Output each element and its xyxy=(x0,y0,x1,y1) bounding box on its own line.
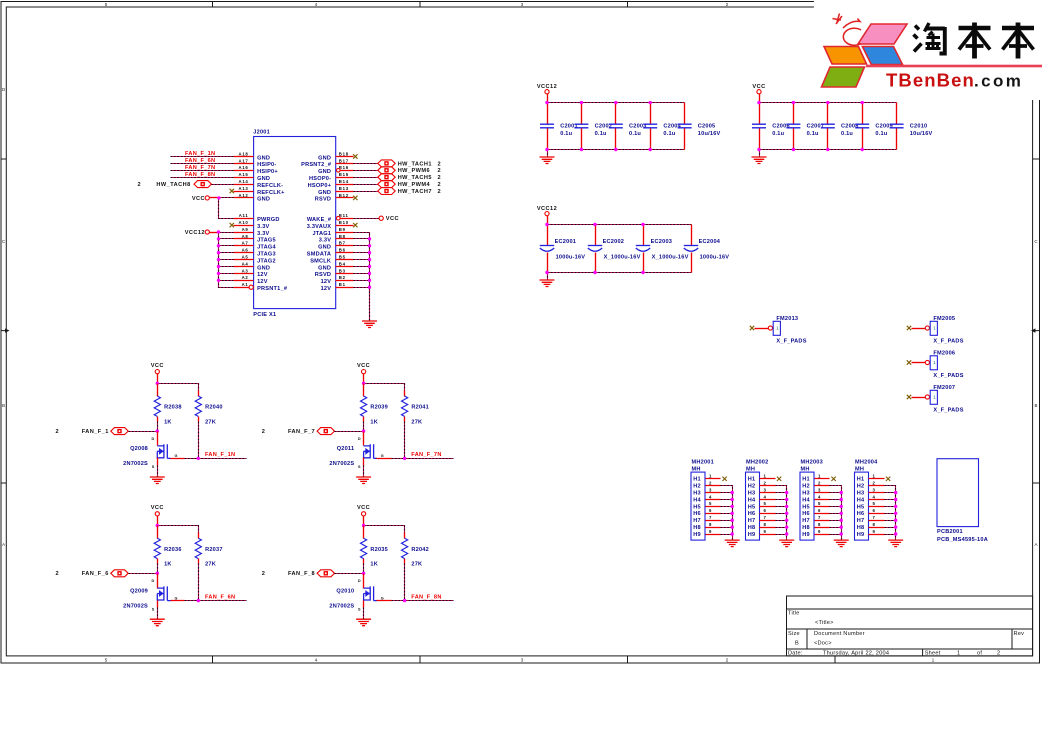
svg-text:1: 1 xyxy=(818,474,821,479)
svg-text:VCC12: VCC12 xyxy=(537,206,557,212)
svg-text:12V: 12V xyxy=(257,279,268,285)
capacitor EC2002 X_1000u-16V xyxy=(588,225,641,273)
wire ground bus MH2004 xyxy=(885,486,896,541)
svg-text:0.1u: 0.1u xyxy=(772,131,784,137)
svg-text:0.1u: 0.1u xyxy=(595,131,607,137)
svg-text:2: 2 xyxy=(763,481,766,486)
svg-text:1000u-16V: 1000u-16V xyxy=(556,255,586,261)
wire output net FAN_F_7N xyxy=(392,458,454,460)
svg-text:9: 9 xyxy=(763,529,766,534)
svg-text:7: 7 xyxy=(818,515,821,520)
svg-text:VCC: VCC xyxy=(151,505,164,511)
junction output Q2009 xyxy=(197,599,200,602)
svg-text:H6: H6 xyxy=(802,511,810,517)
svg-text:H6: H6 xyxy=(857,511,865,517)
svg-text:H2: H2 xyxy=(802,484,810,490)
svg-text:C: C xyxy=(2,239,5,244)
svg-text:of: of xyxy=(977,650,982,656)
svg-text:B5: B5 xyxy=(339,255,346,260)
svg-text:H5: H5 xyxy=(857,504,865,510)
svg-text:FAN_F_6N: FAN_F_6N xyxy=(185,158,215,164)
ground Q2011 xyxy=(356,477,371,484)
capacitor C2010 10u/16V xyxy=(890,103,933,150)
junctions on GND bus xyxy=(368,237,371,289)
resistor R2038 1K xyxy=(154,384,181,426)
svg-text:FM2007: FM2007 xyxy=(933,385,955,391)
svg-text:0.1u: 0.1u xyxy=(807,131,819,137)
svg-text:5: 5 xyxy=(709,501,712,506)
resistor R2041 27K xyxy=(402,391,429,426)
junction VCC circuit Q2008 xyxy=(156,382,159,385)
svg-text:FAN_F_7N: FAN_F_7N xyxy=(185,165,215,171)
junctions MH2003 xyxy=(840,491,843,536)
svg-text:27K: 27K xyxy=(205,419,216,425)
svg-text:8: 8 xyxy=(709,522,712,527)
svg-text:H2: H2 xyxy=(857,484,865,490)
svg-text:R2041: R2041 xyxy=(411,405,429,411)
svg-text:1000u-16V: 1000u-16V xyxy=(700,255,730,261)
logo green parallelogram xyxy=(822,67,865,87)
junctions bank 1 xyxy=(545,101,652,151)
svg-text:A18: A18 xyxy=(239,151,249,156)
wire pin B11 to VCC xyxy=(354,218,380,220)
svg-text:JTAG5: JTAG5 xyxy=(257,238,276,244)
svg-text:6: 6 xyxy=(872,508,875,513)
svg-text:27K: 27K xyxy=(411,419,422,425)
wire pin B15 to port HW_TACH5 xyxy=(354,177,378,179)
svg-text:0.1u: 0.1u xyxy=(663,131,675,137)
svg-text:G: G xyxy=(175,454,178,458)
svg-text:Q2008: Q2008 xyxy=(130,446,148,452)
svg-text:2: 2 xyxy=(56,429,60,435)
svg-text:X_F_PADS: X_F_PADS xyxy=(933,338,963,344)
svg-text:R2040: R2040 xyxy=(205,405,223,411)
svg-text:0.1u: 0.1u xyxy=(560,131,572,137)
wire pin B14 to port HW_PWM4 xyxy=(354,184,378,186)
svg-text:HW_PWM6: HW_PWM6 xyxy=(398,168,430,174)
svg-text:A17: A17 xyxy=(239,158,249,163)
svg-text:R2038: R2038 xyxy=(164,405,182,411)
fan pad FM2007 xyxy=(907,385,964,413)
power symbol VCC12 at pin A9 xyxy=(185,230,210,236)
svg-text:H1: H1 xyxy=(857,477,865,483)
off-page port HW_TACH8 xyxy=(138,181,212,188)
svg-text:2N7002S: 2N7002S xyxy=(329,461,354,467)
svg-text:S: S xyxy=(152,465,155,469)
svg-text:12V: 12V xyxy=(321,286,332,292)
title block text xyxy=(788,611,1024,657)
svg-text:R2036: R2036 xyxy=(164,547,182,553)
svg-text:Document Number: Document Number xyxy=(814,631,865,637)
junction output Q2010 xyxy=(403,599,406,602)
svg-text:MH2004: MH2004 xyxy=(855,460,878,466)
svg-text:5: 5 xyxy=(872,501,875,506)
capacitor C2007 0.1u xyxy=(786,103,824,150)
svg-text:Rev: Rev xyxy=(1014,631,1025,637)
svg-text:1: 1 xyxy=(763,474,766,479)
svg-text:2: 2 xyxy=(997,650,1000,656)
svg-text:VCC12: VCC12 xyxy=(537,84,557,90)
junctions MH2002 xyxy=(785,491,788,536)
svg-text:H5: H5 xyxy=(748,504,756,510)
svg-text:EC2002: EC2002 xyxy=(603,239,625,245)
wire ground stem bank 2 xyxy=(759,150,761,158)
svg-text:H3: H3 xyxy=(802,491,810,497)
svg-text:FAN_F_7: FAN_F_7 xyxy=(288,429,315,435)
svg-text:D: D xyxy=(152,579,155,583)
svg-text:A10: A10 xyxy=(239,220,249,225)
svg-text:3.3V: 3.3V xyxy=(319,238,331,244)
svg-text:H6: H6 xyxy=(693,511,701,517)
svg-text:HW_TACH5: HW_TACH5 xyxy=(398,175,432,181)
svg-text:2: 2 xyxy=(438,175,442,181)
svg-text:FAN_F_8: FAN_F_8 xyxy=(288,571,315,577)
logo swoosh underline xyxy=(866,65,1042,68)
junction VCC circuit Q2010 xyxy=(362,524,365,527)
svg-text:H9: H9 xyxy=(748,532,756,538)
power symbol VCC12 bank 1 xyxy=(537,84,557,94)
svg-text:2: 2 xyxy=(262,429,266,435)
svg-text:A16: A16 xyxy=(239,165,249,170)
svg-text:0.1u: 0.1u xyxy=(841,131,853,137)
svg-text:FAN_F_6N: FAN_F_6N xyxy=(205,594,235,600)
svg-text:6: 6 xyxy=(818,508,821,513)
svg-text:H8: H8 xyxy=(693,525,701,531)
svg-text:B4: B4 xyxy=(339,261,346,266)
svg-text:HW_TACH8: HW_TACH8 xyxy=(156,182,190,188)
pin A1 PRSNT1 circle xyxy=(249,285,253,289)
svg-text:4: 4 xyxy=(709,494,712,499)
svg-text:6: 6 xyxy=(763,508,766,513)
svg-text:B13: B13 xyxy=(339,186,349,191)
no-connect X pin1 MH2003 xyxy=(831,477,835,481)
svg-text:JTAG4: JTAG4 xyxy=(257,245,276,251)
svg-text:D: D xyxy=(358,579,361,583)
ground bank 3 xyxy=(540,280,555,287)
svg-text:B15: B15 xyxy=(339,172,349,177)
svg-text:D: D xyxy=(2,87,5,92)
logo background xyxy=(814,0,1053,100)
svg-text:A3: A3 xyxy=(242,268,249,273)
svg-text:VCC: VCC xyxy=(752,84,765,90)
mounting hole array MH2002 xyxy=(746,460,769,540)
wire ground bus MH2002 xyxy=(776,486,787,541)
svg-text:JTAG1: JTAG1 xyxy=(312,231,331,237)
svg-text:MH2002: MH2002 xyxy=(746,460,768,466)
off-page port HW_TACH7 xyxy=(378,188,441,195)
zone mid arrows xyxy=(1,330,1040,332)
svg-text:R2042: R2042 xyxy=(411,547,429,553)
ground Q2009 xyxy=(150,619,165,626)
off-page port HW_TACH5 xyxy=(378,174,441,181)
svg-text:Thursday, April 22, 2004: Thursday, April 22, 2004 xyxy=(823,650,889,656)
junction at VCC/A12 xyxy=(217,196,220,199)
svg-text:A14: A14 xyxy=(239,179,249,184)
svg-text:A1: A1 xyxy=(242,282,249,287)
svg-text:G: G xyxy=(381,454,384,458)
svg-text:3.3VAUX: 3.3VAUX xyxy=(307,224,331,230)
wire net FAN_F_8N to pin A15 xyxy=(171,177,234,179)
pins MH2001 xyxy=(706,474,721,535)
svg-text:EC2001: EC2001 xyxy=(555,239,577,245)
transistor Q2010 2N7002S xyxy=(329,574,391,612)
wire R2036 to gate node xyxy=(157,564,159,574)
power symbol VCC circuit Q2010 xyxy=(357,505,370,516)
svg-text:MH2003: MH2003 xyxy=(801,460,823,466)
svg-text:R2035: R2035 xyxy=(370,547,388,553)
no-connect X at pin A13 xyxy=(230,189,234,193)
svg-text:.com: .com xyxy=(974,72,1023,91)
svg-text:4: 4 xyxy=(818,494,821,499)
svg-text:VCC: VCC xyxy=(386,216,399,222)
svg-text:1K: 1K xyxy=(370,419,378,425)
off-page port FAN_F_1 xyxy=(56,428,129,435)
junction output Q2011 xyxy=(403,457,406,460)
svg-text:A2: A2 xyxy=(242,275,249,280)
svg-text:A6: A6 xyxy=(242,248,249,253)
svg-text:FAN_F_8N: FAN_F_8N xyxy=(411,594,441,600)
no-connect X pin1 MH2002 xyxy=(777,477,781,481)
fan pad FM2013 xyxy=(750,316,807,344)
svg-text:2: 2 xyxy=(56,571,60,577)
svg-text:B17: B17 xyxy=(339,158,349,163)
svg-text:7: 7 xyxy=(872,515,875,520)
wire net FAN_F_6N to pin A17 xyxy=(171,163,234,165)
svg-text:FM2005: FM2005 xyxy=(933,316,955,322)
svg-text:8: 8 xyxy=(872,522,875,527)
svg-text:HSIP0+: HSIP0+ xyxy=(257,169,278,175)
svg-text:H4: H4 xyxy=(857,497,865,503)
svg-text:H1: H1 xyxy=(802,477,810,483)
svg-text:H2: H2 xyxy=(693,484,701,490)
svg-text:H8: H8 xyxy=(802,525,810,531)
svg-text:27K: 27K xyxy=(205,562,216,568)
svg-text:GND: GND xyxy=(257,155,270,161)
logo figure xyxy=(833,14,862,46)
wire HW_TACH8 to pin A14 xyxy=(212,184,234,186)
svg-text:JTAG3: JTAG3 xyxy=(257,252,276,258)
svg-text:2: 2 xyxy=(138,182,142,188)
svg-text:HW_TACH7: HW_TACH7 xyxy=(398,189,432,195)
svg-text:3: 3 xyxy=(872,487,875,492)
svg-text:S: S xyxy=(358,607,361,611)
svg-text:TBenBen: TBenBen xyxy=(886,70,975,91)
pin B11 circle xyxy=(337,216,341,220)
no-connect X at pin B18 xyxy=(353,154,357,158)
svg-text:B14: B14 xyxy=(339,179,349,184)
capacitor C2003 0.1u xyxy=(609,103,647,150)
ground MH2003 xyxy=(834,540,849,547)
svg-text:B9: B9 xyxy=(339,227,346,232)
svg-text:HSOP0+: HSOP0+ xyxy=(308,183,332,189)
svg-text:D: D xyxy=(152,437,155,441)
wire R2040 to drain node xyxy=(198,422,200,459)
wire GND bus B9..B1 xyxy=(354,233,370,322)
capacitor C2005 10u/16V xyxy=(678,103,721,150)
svg-text:2N7002S: 2N7002S xyxy=(329,603,354,609)
svg-text:G: G xyxy=(381,596,384,600)
wire rails bank 3 xyxy=(547,216,549,225)
svg-text:X_F_PADS: X_F_PADS xyxy=(776,338,806,344)
wire VCC rail circuit Q2011 xyxy=(363,374,365,384)
svg-text:Q2011: Q2011 xyxy=(337,446,355,452)
resistor R2042 27K xyxy=(402,533,429,568)
no-connect X pin1 MH2001 xyxy=(722,477,726,481)
junction input node Q2011 xyxy=(362,429,365,432)
wire R2035 to gate node xyxy=(363,564,365,574)
svg-text:PCB2001: PCB2001 xyxy=(937,529,963,535)
wire output net FAN_F_1N xyxy=(185,458,247,460)
junctions on VCC12 bus xyxy=(217,230,220,282)
off-page port FAN_F_8 xyxy=(262,570,335,577)
svg-text:10u/16V: 10u/16V xyxy=(910,131,933,137)
svg-text:1: 1 xyxy=(709,474,712,479)
svg-text:S: S xyxy=(358,465,361,469)
svg-text:X_1000u-16V: X_1000u-16V xyxy=(604,255,641,261)
logo blue parallelogram xyxy=(862,47,902,65)
resistor R2037 27K xyxy=(195,533,222,568)
svg-text:HW_PWM4: HW_PWM4 xyxy=(398,182,431,188)
svg-text:4: 4 xyxy=(872,494,875,499)
svg-text:12V: 12V xyxy=(321,279,332,285)
svg-text:GND: GND xyxy=(257,176,270,182)
transistor Q2009 2N7002S xyxy=(123,574,184,612)
ground MH2004 xyxy=(888,540,903,547)
svg-text:B18: B18 xyxy=(339,151,349,156)
svg-text:H1: H1 xyxy=(748,477,756,483)
svg-text:B7: B7 xyxy=(339,241,346,246)
svg-text:2N7002S: 2N7002S xyxy=(123,603,148,609)
svg-text:3: 3 xyxy=(763,487,766,492)
off-page port HW_PWM6 xyxy=(378,167,441,174)
svg-text:2: 2 xyxy=(872,481,875,486)
svg-text:B2: B2 xyxy=(339,275,346,280)
junction input node Q2010 xyxy=(362,572,365,575)
svg-text:EC2004: EC2004 xyxy=(699,239,721,245)
svg-text:PWRGD: PWRGD xyxy=(257,217,280,223)
pins MH2004 xyxy=(869,474,885,535)
svg-text:H6: H6 xyxy=(748,511,756,517)
off-page port FAN_F_7 xyxy=(262,428,335,435)
svg-text:7: 7 xyxy=(763,515,766,520)
svg-text:1: 1 xyxy=(872,474,875,479)
svg-text:H7: H7 xyxy=(802,518,810,524)
ground bank 1 xyxy=(540,157,555,164)
svg-text:PRSNT2_#: PRSNT2_# xyxy=(301,162,332,168)
svg-text:2: 2 xyxy=(438,182,442,188)
ground Q2010 xyxy=(356,619,371,626)
svg-text:GND: GND xyxy=(318,245,331,251)
svg-text:5: 5 xyxy=(763,501,766,506)
svg-text:7: 7 xyxy=(709,515,712,520)
svg-text:<Doc>: <Doc> xyxy=(814,641,832,647)
svg-text:H5: H5 xyxy=(802,504,810,510)
mounting hole array MH2003 xyxy=(800,460,823,540)
svg-text:RSVD: RSVD xyxy=(315,197,331,203)
wire VCC rail circuit Q2010 xyxy=(363,516,365,526)
svg-text:12V: 12V xyxy=(257,272,268,278)
logo chinese characters 淘本本 xyxy=(914,23,1035,59)
svg-text:A11: A11 xyxy=(239,213,249,218)
junction input node Q2009 xyxy=(156,572,159,575)
svg-text:9: 9 xyxy=(709,529,712,534)
ground MH2001 xyxy=(725,540,740,547)
junctions bank 3 xyxy=(545,223,644,274)
svg-text:9: 9 xyxy=(872,529,875,534)
power symbol VCC12 bank 3 xyxy=(537,206,557,216)
svg-text:S: S xyxy=(152,607,155,611)
svg-text:VCC12: VCC12 xyxy=(185,230,205,236)
svg-text:GND: GND xyxy=(257,265,270,271)
svg-text:2: 2 xyxy=(709,481,712,486)
wire rails bank 1 xyxy=(547,94,549,103)
capacitor EC2003 X_1000u-16V xyxy=(636,225,689,273)
svg-text:MH2001: MH2001 xyxy=(692,460,714,466)
wire pin B16 to port HW_PWM6 xyxy=(354,170,378,172)
wire ground bus MH2001 xyxy=(721,486,733,541)
wire output net FAN_F_8N xyxy=(392,600,454,602)
svg-text:H9: H9 xyxy=(693,532,701,538)
svg-text:H3: H3 xyxy=(693,491,701,497)
pins MH2002 xyxy=(760,474,776,535)
svg-text:HSIP0-: HSIP0- xyxy=(257,162,276,168)
capacitor C2006 0.1u xyxy=(752,103,790,150)
power symbol VCC at B11 xyxy=(379,216,399,222)
svg-text:HSOP0-: HSOP0- xyxy=(309,176,331,182)
power symbol VCC circuit Q2008 xyxy=(151,363,164,374)
svg-text:SMDATA: SMDATA xyxy=(307,252,331,258)
svg-text:3: 3 xyxy=(818,487,821,492)
svg-text:9: 9 xyxy=(818,529,821,534)
svg-text:J2001: J2001 xyxy=(253,130,270,136)
transistor Q2008 2N7002S xyxy=(123,432,184,470)
svg-text:A: A xyxy=(1035,542,1038,547)
capacitor C2004 0.1u xyxy=(643,103,681,150)
svg-text:27K: 27K xyxy=(411,562,422,568)
svg-text:H9: H9 xyxy=(857,532,865,538)
svg-text:10u/16V: 10u/16V xyxy=(698,131,721,137)
svg-text:H9: H9 xyxy=(802,532,810,538)
svg-text:2: 2 xyxy=(438,168,442,174)
svg-text:C2005: C2005 xyxy=(698,123,716,129)
wire R2042 to drain node xyxy=(404,564,406,601)
svg-text:6: 6 xyxy=(709,508,712,513)
svg-text:B6: B6 xyxy=(339,248,346,253)
svg-text:VCC: VCC xyxy=(151,363,164,369)
svg-text:B3: B3 xyxy=(339,268,346,273)
wire ground stem bank 3 xyxy=(547,273,549,281)
wire ground bus MH2003 xyxy=(830,486,842,541)
svg-text:GND: GND xyxy=(318,190,331,196)
svg-text:WAKE_#: WAKE_# xyxy=(307,217,332,223)
svg-text:X_F_PADS: X_F_PADS xyxy=(933,407,963,413)
svg-text:H7: H7 xyxy=(857,518,865,524)
svg-text:H4: H4 xyxy=(748,497,756,503)
svg-text:H8: H8 xyxy=(748,525,756,531)
fan pad FM2006 xyxy=(907,351,964,379)
svg-text:3.3V: 3.3V xyxy=(257,231,269,237)
svg-text:4: 4 xyxy=(763,494,766,499)
svg-text:H1: H1 xyxy=(693,477,701,483)
power symbol VCC circuit Q2011 xyxy=(357,363,370,374)
pins MH2003 xyxy=(815,474,830,535)
off-page port HW_PWM4 xyxy=(378,181,441,188)
wire VCC12 bus A9..A1 xyxy=(210,232,219,234)
svg-text:H7: H7 xyxy=(748,518,756,524)
svg-text:HW_TACH1: HW_TACH1 xyxy=(398,161,432,167)
capacitor C2001 0.1u xyxy=(540,103,578,150)
svg-text:G: G xyxy=(175,596,178,600)
